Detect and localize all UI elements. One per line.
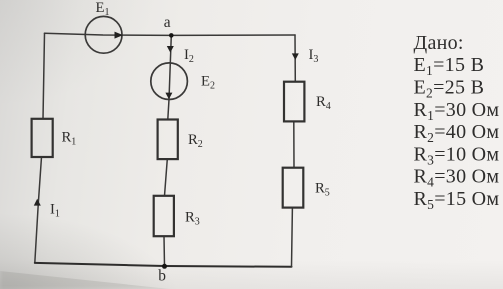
node b [162, 264, 167, 269]
svg-text:Дано:: Дано: [414, 32, 464, 54]
svg-text:R3=10 Ом: R3=10 Ом [414, 143, 500, 167]
svg-text:R1: R1 [62, 130, 77, 148]
svg-text:R2: R2 [188, 132, 203, 150]
wire right lower [291, 208, 294, 267]
svg-text:R1=30 Ом: R1=30 Ом [414, 99, 500, 123]
wire right [294, 35, 296, 82]
resistor R2 [158, 120, 178, 160]
wire top [45, 33, 296, 35]
wire middle upper [168, 35, 172, 119]
svg-text:R4: R4 [316, 94, 331, 112]
svg-text:R5=15 Ом: R5=15 Ом [414, 188, 500, 212]
wire bottom [35, 263, 292, 267]
svg-text:E1=15 В: E1=15 В [414, 54, 485, 78]
arrow I1 [34, 199, 41, 206]
source E2 [151, 63, 188, 100]
svg-text:E2: E2 [201, 73, 215, 91]
wire left lower [35, 157, 42, 263]
wire middle lower [163, 236, 166, 266]
resistor R4 [284, 82, 304, 122]
resistor R1 [32, 119, 53, 157]
arrow I2 [167, 46, 174, 53]
svg-text:E2=25 В: E2=25 В [414, 77, 485, 101]
arrow I3 [292, 53, 299, 60]
resistor R5 [283, 168, 304, 208]
arrow E2 [165, 93, 172, 100]
wire middle between R2 R3 [165, 159, 168, 196]
svg-text:R4=30 Ом: R4=30 Ом [414, 166, 500, 190]
svg-text:b: b [158, 268, 166, 285]
svg-text:I3: I3 [309, 47, 319, 65]
svg-text:I1: I1 [50, 202, 60, 220]
source E1 [85, 16, 122, 53]
node a [169, 33, 174, 38]
svg-text:R3: R3 [185, 210, 200, 228]
svg-text:R2=40 Ом: R2=40 Ом [414, 121, 500, 145]
resistor R3 [154, 196, 174, 236]
svg-text:E1: E1 [96, 0, 110, 18]
svg-text:a: a [164, 14, 171, 31]
arrow E1 [115, 32, 124, 39]
wire right middle [293, 121, 295, 167]
given data text [414, 32, 500, 212]
svg-text:R5: R5 [315, 181, 330, 199]
wire left [43, 33, 45, 119]
svg-text:I2: I2 [184, 47, 194, 65]
